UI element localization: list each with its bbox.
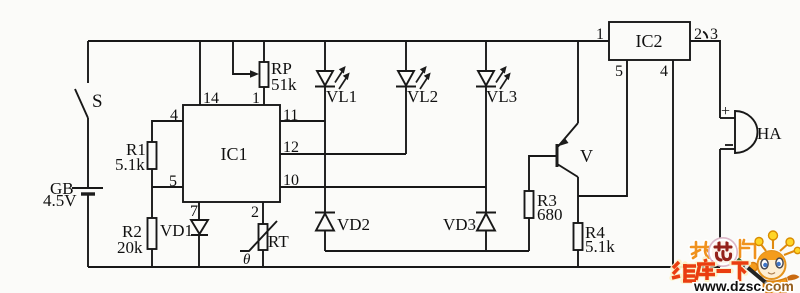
svg-text:IC2: IC2 — [636, 31, 663, 51]
svg-text:5: 5 — [615, 63, 623, 80]
wire top supply rail — [88, 40, 609, 42]
transistor V base bar — [556, 144, 559, 167]
svg-text:2: 2 — [694, 26, 702, 43]
wire emitter to top rail — [577, 41, 579, 123]
wire VL3 cathode down through pin10 node — [485, 87, 487, 213]
potentiometer RP — [260, 62, 269, 87]
svg-text:4: 4 — [170, 107, 178, 124]
svg-text:IC1: IC1 — [221, 144, 248, 164]
switch S — [75, 89, 88, 118]
wire VL2 cathode to pin12 wire — [405, 87, 407, 155]
svg-text:51k: 51k — [271, 75, 297, 94]
svg-text:VD1: VD1 — [160, 221, 193, 240]
transistor V collector — [558, 165, 578, 178]
wire lower bus — [325, 250, 529, 252]
IC2 box — [609, 22, 690, 60]
wire VD1 to bottom rail — [198, 235, 200, 267]
wire top rail to VL1 — [324, 41, 326, 71]
watermark mascot — [738, 231, 800, 293]
wire R3 to lower bus — [528, 218, 530, 251]
svg-text:680: 680 — [537, 205, 563, 224]
svg-text:1: 1 — [596, 26, 604, 43]
sounder HA — [735, 111, 758, 153]
LED VL1 arrows — [335, 66, 350, 89]
wire R4 to bottom rail — [577, 250, 579, 267]
resistor R4 — [574, 223, 583, 250]
svg-text:7: 7 — [190, 203, 198, 220]
wire left branch upper — [87, 41, 89, 83]
wire top rail to RP — [263, 41, 265, 62]
svg-text:4.5V: 4.5V — [43, 191, 77, 210]
wire collector node to IC2 pin5 — [578, 60, 627, 196]
watermark red text weikuyixia — [672, 259, 749, 281]
wire top rail to VL2 — [405, 41, 407, 71]
char yi — [717, 269, 732, 273]
LED VL2 — [398, 71, 414, 86]
watermark char pian — [740, 240, 755, 258]
char xia — [732, 261, 749, 265]
wire bottom return rail — [88, 266, 720, 268]
LED VL2 arrows — [416, 66, 431, 89]
svg-text:RT: RT — [268, 232, 289, 251]
svg-text:θ: θ — [243, 252, 251, 268]
wire RP to pin1 of IC1 — [263, 87, 265, 105]
wire VD2 to lower bus — [324, 231, 326, 252]
svg-text:VL3: VL3 — [486, 87, 517, 106]
diode VD1 — [191, 220, 208, 234]
RP wiper arrowhead — [250, 70, 259, 78]
IC1 box — [183, 105, 280, 202]
svg-text:11: 11 — [283, 107, 298, 124]
svg-text:VL2: VL2 — [407, 87, 438, 106]
svg-text:VL1: VL1 — [326, 87, 357, 106]
LED VL3 — [478, 71, 494, 86]
char ku — [705, 259, 706, 262]
watermark dzsc.com logo — [672, 231, 800, 293]
svg-text:1: 1 — [252, 90, 260, 107]
watermark char zhao — [691, 242, 712, 258]
resistor R2 — [148, 218, 157, 249]
wire collector down to R4 — [577, 177, 579, 223]
wire IC2 pin4 to bottom rail — [672, 60, 674, 267]
wire pin12 of IC1 — [280, 153, 406, 155]
wire pin5 of IC1 — [152, 186, 183, 188]
transistor V emitter with arrow — [558, 123, 578, 147]
diode VD2 — [315, 212, 335, 214]
wire RT to bottom rail — [262, 250, 264, 267]
svg-text:10: 10 — [283, 172, 299, 189]
svg-text:4: 4 — [660, 63, 668, 80]
watermark magnifier handle — [705, 263, 713, 271]
svg-text:V: V — [580, 146, 593, 166]
battery GB plates — [72, 187, 103, 189]
wire VL1 cathode down through pin11 node — [324, 87, 326, 213]
resistor R1 — [148, 142, 157, 169]
LED VL3 arrows — [496, 66, 511, 89]
wire R2 to bottom rail — [151, 249, 153, 267]
svg-text:www.dzsc.com: www.dzsc.com — [693, 278, 794, 293]
wire switch to battery — [87, 118, 89, 187]
diode VD3 — [476, 212, 496, 214]
svg-text:S: S — [92, 91, 103, 112]
svg-text:12: 12 — [283, 139, 299, 156]
wire HA to bottom rail — [719, 149, 721, 267]
thermistor RT — [259, 224, 268, 250]
wire HA plus lead — [720, 117, 735, 119]
LED VL1 — [317, 71, 333, 86]
wire VD3 to lower bus — [485, 231, 487, 252]
svg-text:14: 14 — [203, 90, 219, 107]
svg-text:VD2: VD2 — [337, 215, 370, 234]
svg-text:HA: HA — [757, 124, 782, 143]
wire pin10 of IC1 — [280, 186, 486, 188]
wire pin2 of IC1 to RT — [262, 202, 264, 224]
svg-text:2: 2 — [251, 204, 259, 221]
watermark magnifier with xin — [710, 239, 736, 265]
svg-text:5: 5 — [169, 173, 177, 190]
wire IC2 pins 2,3 to HA — [690, 41, 720, 118]
wire base lead to R3 — [529, 156, 556, 191]
label - terminal — [725, 144, 733, 146]
wire R1 to R2 — [151, 169, 153, 218]
wire top rail to RP wiper — [233, 41, 253, 74]
wire HA minus lead — [720, 148, 735, 150]
svg-text:5.1k: 5.1k — [115, 155, 145, 174]
wire pin11 of IC1 — [280, 120, 325, 122]
svg-text:20k: 20k — [117, 238, 143, 257]
watermark pen — [738, 259, 742, 263]
char wei — [673, 262, 679, 268]
svg-text:VD3: VD3 — [443, 215, 476, 234]
svg-text:3: 3 — [710, 26, 718, 43]
svg-text:5.1k: 5.1k — [585, 237, 615, 256]
wire pin14 of IC1 to top rail — [199, 41, 201, 105]
wire pin7 of IC1 to VD1 — [198, 202, 200, 220]
resistor R3 — [525, 191, 534, 218]
wire pin4 of IC1 to R1 — [152, 121, 183, 142]
wire top rail to VL3 — [485, 41, 487, 71]
wire battery to bottom rail — [87, 195, 89, 267]
